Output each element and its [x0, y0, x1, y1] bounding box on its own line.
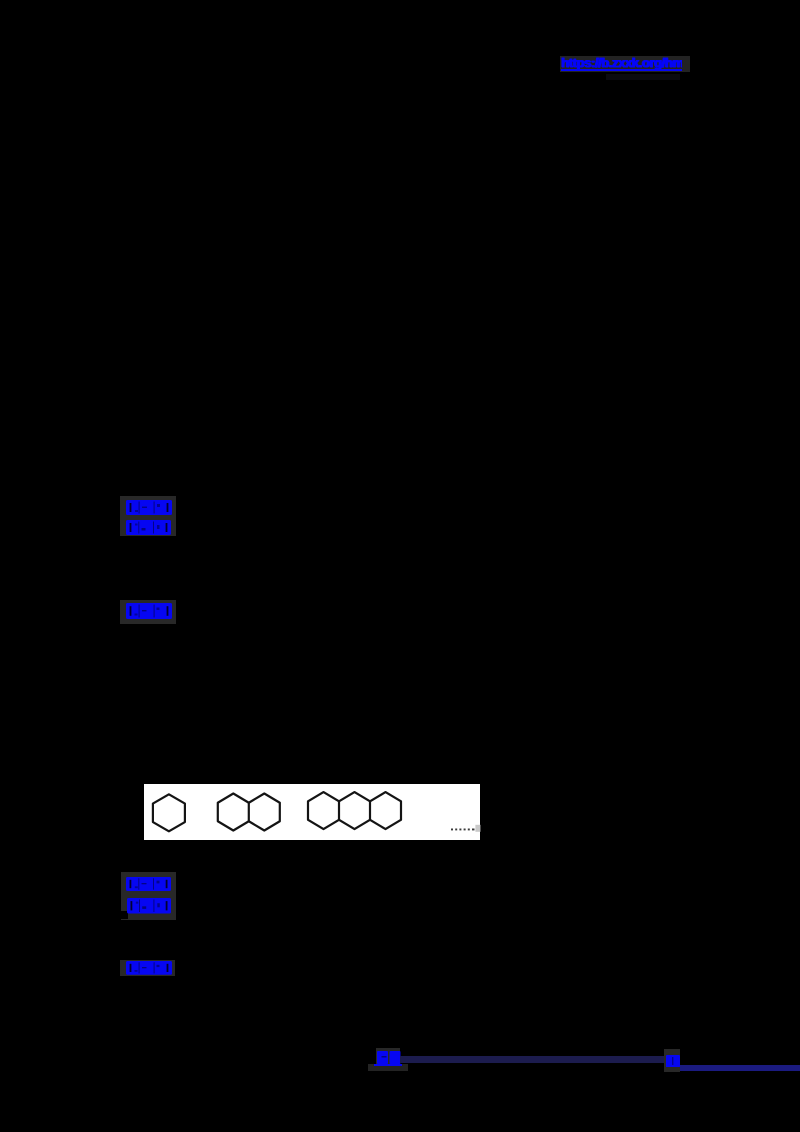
grey resize handle [475, 824, 480, 831]
hexagon structures svg [144, 784, 481, 841]
hexagon triple (anthracene) perimeter [308, 792, 401, 829]
footer right highlight box [664, 1049, 680, 1073]
footer navy rule (right, to edge) [680, 1065, 800, 1071]
blue label line 【分析】 q2 [127, 898, 171, 914]
anthracene shared bond right [368, 801, 370, 820]
footer left highlight box [376, 1048, 400, 1065]
footer navy rule (left) [400, 1056, 664, 1063]
highlight box 2 (解答) [120, 600, 176, 624]
faint highlight line under link [606, 74, 680, 80]
decalin shared bond [247, 802, 249, 821]
footer second-line grey bar [368, 1064, 408, 1071]
hyperlink highlight box (top right) [560, 56, 690, 72]
hyperlink URL text [561, 55, 682, 72]
black blob in box3 [118, 911, 128, 919]
white figure panel [144, 784, 480, 840]
footer right blue char [666, 1055, 680, 1067]
blue label line 【解答】 q2 [126, 961, 172, 975]
blue label line 【考点】 q2 [126, 877, 171, 891]
blue label line 【考点】 [126, 500, 172, 515]
hexagon single (cyclohexane) [152, 794, 184, 831]
ellipsis dots [451, 828, 475, 830]
footer left blue underline [374, 1064, 402, 1066]
hexagon pair (decalin) perimeter [217, 793, 279, 830]
highlight box 1 (考点/分析) [120, 496, 176, 536]
blue label line 【解答】 [126, 603, 172, 619]
highlight box 4 (解答 q2) [120, 960, 175, 976]
blue label line 【分析】 [126, 520, 171, 535]
highlight box 3 (考点/分析 q2) [121, 872, 176, 920]
anthracene shared bond left [337, 801, 339, 820]
footer left blue word [377, 1051, 401, 1064]
